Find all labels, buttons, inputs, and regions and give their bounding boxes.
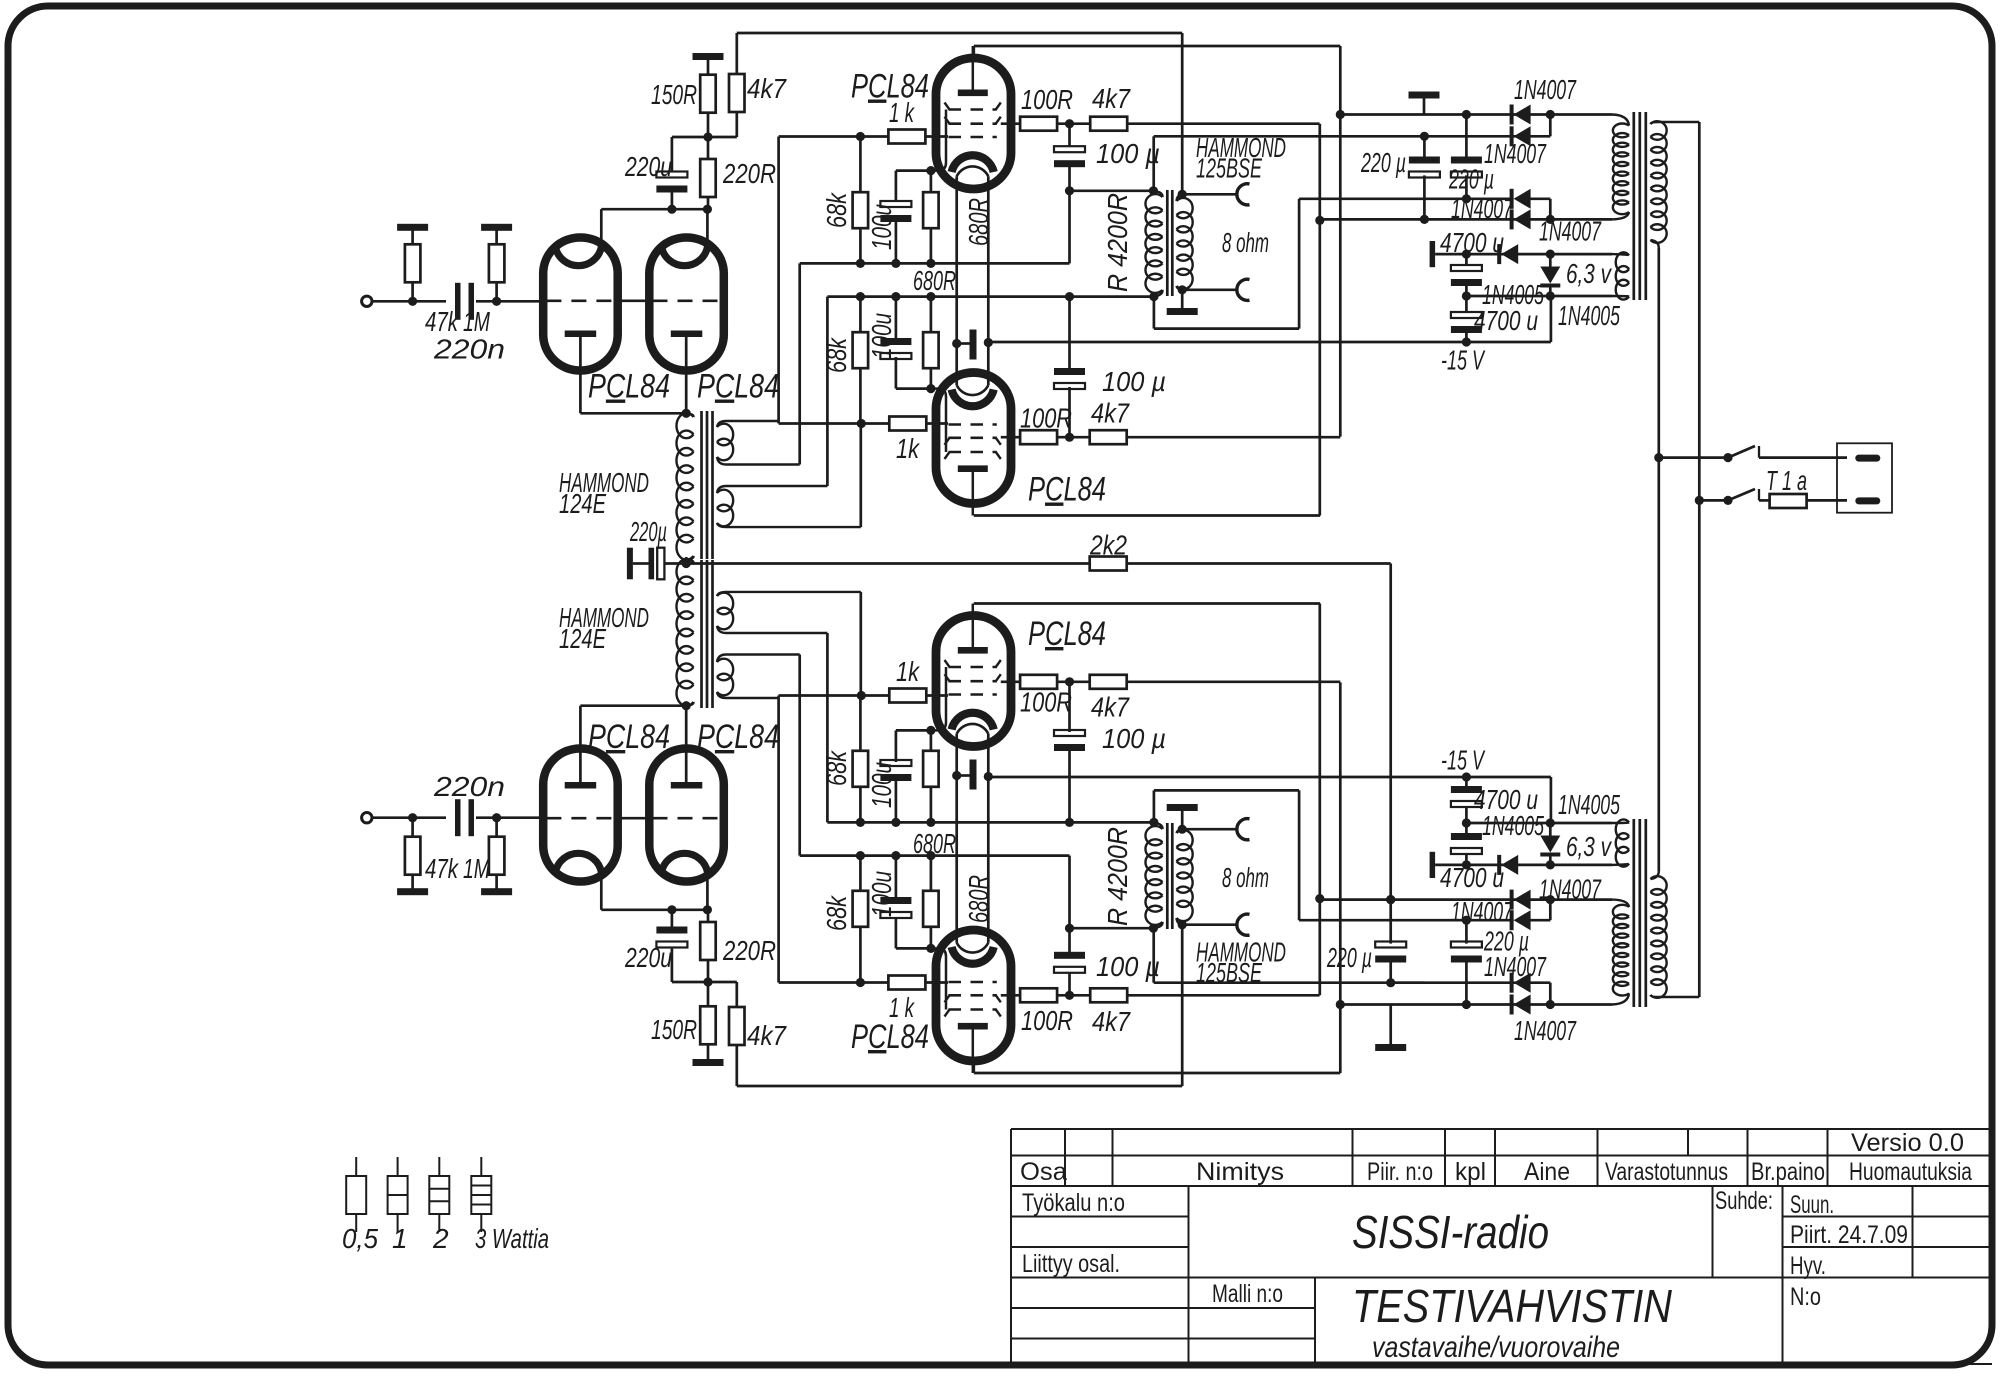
label PCL84 V4 (bottom) (1028, 615, 1106, 653)
switch 1 blade (1728, 446, 1755, 458)
wire 220u top stem (bottom) (671, 947, 674, 982)
capacitor 220µ-1 (bottom) (1375, 942, 1406, 963)
wire V3 plate rail vertical (top) (972, 46, 975, 59)
capacitor V3V4 cathode link plate (top) (970, 330, 977, 360)
svg-text:100R: 100R (1021, 84, 1073, 115)
junction rail A / 68k (top) (856, 132, 865, 141)
junction leg right cap (bottom) (984, 772, 993, 781)
tube V3 plate stem (bottom) (972, 1026, 975, 1073)
junction 100µ-1 / primary feed (bottom) (1065, 924, 1074, 933)
diode 1N4005 D5 (bottom) (1497, 855, 1518, 875)
diode 1N4007 D1 (top) (1510, 105, 1531, 125)
switch 1 pole (1723, 453, 1732, 462)
transformer 124E secondary lower winding (top) (717, 490, 733, 527)
ground of 1M (bottom) (481, 888, 512, 895)
svg-text:6,3 v: 6,3 v (1566, 258, 1612, 289)
tube V1 cathode bar (top) (565, 331, 597, 338)
label 4700 u 2 (top) (1474, 305, 1538, 336)
title text Suun. (1790, 1191, 1834, 1219)
wire P3 diode to vert (bottom) (1529, 919, 1550, 922)
wire input to 220n (top) (371, 300, 446, 303)
junction -15V 4700u (top) (1462, 337, 1471, 346)
transformer 124E sec lower top lead (bottom) (717, 626, 827, 633)
resistor 1k V3 (top) (888, 130, 925, 144)
svg-text:kpl: kpl (1455, 1158, 1486, 1186)
svg-text:220R: 220R (722, 935, 776, 966)
resistor 68k-2 (top) (853, 332, 869, 368)
label 100R V3 (top) (1021, 84, 1073, 115)
svg-text:-15 V: -15 V (1441, 345, 1485, 376)
wire 150R to node (top) (707, 113, 710, 137)
wire V4 screen lead (top) (1001, 436, 1021, 439)
wire V1 plate lead (top) (600, 209, 603, 252)
label 4k7 V3 (top) (1092, 83, 1131, 114)
wire plate bus (bottom) (601, 908, 707, 911)
wire bus1 (top) (1318, 124, 1321, 516)
tube V4 grid row 2 (top) (945, 438, 1001, 445)
wire secondary ground stem (bottom) (1181, 811, 1184, 829)
junction 220u/plate bus (top) (667, 205, 676, 214)
wire grid rail A2 (top) (779, 422, 890, 425)
svg-text:100R: 100R (1020, 403, 1072, 434)
ground of 125BSE secondary (bottom) (1167, 804, 1198, 811)
svg-text:R 4200R: R 4200R (1102, 827, 1133, 926)
wire 680R-2 top stem (top) (930, 297, 933, 333)
tube V4 plate bar (bottom) (958, 647, 988, 654)
label 8 ohm (bottom) (1222, 862, 1269, 893)
power transformer 6.3V top lead (bottom) (1612, 864, 1629, 865)
junction rail C 68k (top) (856, 292, 865, 301)
title text Osa (1020, 1158, 1067, 1186)
title text Versio 0.0 (1851, 1129, 1964, 1157)
junction bus2 P1 (bottom) (1336, 1000, 1345, 1009)
label 68k-2 (bottom) (821, 749, 852, 786)
label 100 µ V3 (top) (1096, 138, 1160, 169)
diode 1N4005 D6 (top) (1540, 267, 1560, 288)
wire V2 cathode stem (bottom) (685, 706, 688, 782)
svg-text:680R: 680R (913, 265, 956, 296)
speaker jack sleeve (top) (1237, 279, 1250, 300)
tube V3 plate bar (top) (958, 90, 988, 97)
title text Hyv. (1790, 1252, 1826, 1280)
tube V2 PCL84 triode envelope (bottom) (649, 749, 724, 882)
label 100u-1 (top) (866, 204, 897, 250)
wire plate feed to 125BSE (top) (1070, 189, 1154, 192)
capacitor 220n (top) (455, 283, 474, 320)
wire 100u-2 bottom stem (top) (895, 357, 898, 389)
label 220µ middle (629, 516, 667, 547)
svg-text:PCL84: PCL84 (1028, 615, 1106, 653)
legend label 3 Wattia (475, 1223, 549, 1254)
tube V3 g3 connector (top) (931, 110, 946, 171)
wire 4k7 V3 to bus1 (bottom) (1126, 994, 1320, 997)
wire D6 bottom stem (top) (1549, 284, 1552, 297)
title text Malli n:o (1212, 1280, 1283, 1308)
junction P1 D2 (top) (1546, 110, 1555, 119)
label 2k2 (1089, 530, 1127, 561)
wire NFB rail (top) (737, 32, 1182, 35)
junction screen node V4 (top) (1065, 433, 1074, 442)
junction Y2 4700u (bottom) (1462, 818, 1471, 827)
capacitor end bar 4700u (top) (1430, 241, 1436, 267)
wire 125BSE primary top lead (top) (1152, 136, 1155, 191)
wire D6 top stem (top) (1549, 254, 1552, 266)
title text Huomautuksia (1849, 1158, 1972, 1186)
title text Työkalu n:o (1022, 1189, 1125, 1217)
diode 1N4007 D3 (bottom) (1510, 910, 1531, 930)
title text vastavaihe/vuorovaihe (1372, 1331, 1620, 1364)
svg-text:N:o: N:o (1790, 1283, 1821, 1311)
transformer 124E primary winding (top) (676, 413, 693, 560)
label HAMMOND 124E line2 (top) (559, 488, 606, 519)
junction -15V 4700u (bottom) (1462, 772, 1471, 781)
resistor 68k-1 (top) (853, 192, 869, 228)
tube V1 plate arc (bottom) (555, 853, 601, 872)
transformer 124E sec upper top lead (top) (717, 421, 780, 427)
wire 220R top stem (bottom) (707, 960, 710, 982)
wire riser sec upper bottom (bottom) (798, 655, 801, 856)
resistor 1k V3 (bottom) (888, 976, 925, 990)
wire 68k-2 top stem (bottom) (859, 786, 862, 822)
transformer 124E core line 2 (top) (706, 411, 709, 559)
junction 220R/plate bus (top) (703, 205, 712, 214)
resistor 680R-2 (bottom) (923, 751, 939, 787)
svg-text:1N4007: 1N4007 (1539, 216, 1602, 247)
junction 125BSE secondary bottom (top) (1178, 285, 1187, 294)
diode 1N4007 D2 (bottom) (1510, 973, 1531, 993)
junction input/1M (bottom) (492, 813, 501, 822)
svg-text:220 µ: 220 µ (1483, 926, 1529, 957)
speaker jack sleeve (bottom) (1237, 819, 1250, 840)
svg-text:100 µ: 100 µ (1096, 951, 1160, 982)
tube V4 grid row 1 (top) (945, 452, 1001, 459)
svg-text:R 4200R: R 4200R (1102, 193, 1133, 292)
svg-text:4k7: 4k7 (747, 1020, 787, 1051)
svg-text:Nimitys: Nimitys (1196, 1158, 1284, 1186)
wire 47k to ground (bottom) (411, 875, 414, 890)
capacitor 100u-2 (top) (880, 338, 911, 359)
wire 220µ-1 bottom stem (bottom) (1389, 899, 1392, 944)
wire switch 1 to plug (1759, 456, 1847, 459)
resistor 680R-1 (bottom) (923, 891, 939, 927)
wire cathode node V3 (bottom) (896, 947, 934, 950)
transformer 125BSE secondary winding (top) (1177, 198, 1193, 289)
svg-text:4k7: 4k7 (1091, 692, 1130, 723)
transformer 124E core line 2 (bottom) (706, 560, 709, 708)
capacitor end bar 4700u (bottom) (1430, 852, 1436, 878)
tube V4 g3 connector (top) (931, 389, 946, 452)
svg-text:4k7: 4k7 (747, 73, 787, 104)
wire 1M to input line (bottom) (495, 818, 498, 838)
label 4700 u 1 (top) (1440, 227, 1504, 258)
wire Y1 (top) (1435, 253, 1612, 256)
tube V3 PCL84 pentode envelope (bottom) (936, 930, 1011, 1061)
wire secondary to jack sleeve (bottom) (1182, 828, 1238, 831)
label 100 µ V4 (top) (1102, 366, 1166, 397)
wire 4k7 V3 to bus1 (top) (1126, 122, 1320, 125)
capacitor 4700u-2 (top) (1451, 312, 1482, 333)
tube V4 cathode arc (bottom) (952, 713, 994, 730)
wire 100R-4k7 V3 (top) (1056, 122, 1091, 125)
tube V1 cathode bar (bottom) (565, 782, 597, 789)
label 100 µ V3 (bottom) (1096, 951, 1160, 982)
transformer 124E primary bottom stem (bottom) (685, 562, 688, 564)
speaker jack tip (top) (1237, 184, 1250, 205)
wire NFB drop (bottom) (1181, 925, 1184, 1086)
wire 100µ-1 top stem (top) (1068, 124, 1071, 148)
label 220R (bottom) (722, 935, 776, 966)
tube V4 grid row 3 (top) (949, 423, 997, 426)
wire P3 diode to vert (top) (1529, 197, 1550, 200)
wire rail C (top) (827, 295, 1154, 298)
svg-text:6,3 v: 6,3 v (1566, 831, 1612, 862)
tube V4 beam arc (top) (957, 385, 989, 395)
svg-text:1N4007: 1N4007 (1539, 873, 1602, 904)
label R 4200R (top) (1102, 193, 1133, 292)
wire rail P1 (top) (1340, 113, 1612, 116)
label 1N4007 D3 (bottom) (1451, 896, 1514, 927)
wire 4700u-2 bottom stem (top) (1465, 328, 1468, 342)
svg-text:125BSE: 125BSE (1196, 957, 1262, 988)
svg-text:-15 V: -15 V (1441, 745, 1485, 776)
junction 680R-1 top (top) (926, 166, 935, 175)
resistor 100R V4 (bottom) (1020, 675, 1057, 689)
wire 100µ-1 bottom stem (bottom) (1068, 928, 1071, 954)
power transformer core 1 (top) (1632, 112, 1635, 300)
transformer 124E primary top lead (bottom) (686, 702, 693, 706)
svg-text:220 µ: 220 µ (1448, 164, 1494, 195)
junction rail C 100µ riser (bottom) (1065, 818, 1074, 827)
ground of PSU (bottom) (1375, 1044, 1406, 1051)
wire 4k7 to node (bottom) (735, 982, 738, 1007)
wire 220n to V1 grid (bottom) (476, 816, 545, 819)
tube V2 plate arc (top) (662, 247, 708, 266)
svg-text:Huomautuksia: Huomautuksia (1849, 1158, 1972, 1186)
wire cathode node V4 (top) (896, 387, 934, 390)
capacitor 100µ-1 (top) (1054, 146, 1085, 167)
wire 125BSE primary top lead (bottom) (1152, 928, 1155, 983)
junction bus2 P1 (top) (1336, 110, 1345, 119)
junction 150R/220R (top) (703, 132, 712, 141)
diode 1N4007 D1 (bottom) (1510, 995, 1531, 1015)
wire 100R-4k7 V4 (bottom) (1056, 680, 1090, 683)
capacitor 100u-1 (bottom) (880, 897, 911, 918)
wire PSU ground stem (top) (1423, 97, 1426, 115)
wire 4700u-1 top stem (bottom) (1465, 852, 1468, 865)
wire V3 plate rail vertical (bottom) (972, 1061, 975, 1074)
wire 4k7 to node (top) (735, 112, 738, 137)
wire 220R bottom stem (bottom) (707, 910, 710, 922)
resistor 150R (top) (700, 75, 716, 113)
wire 100u-2 top stem (bottom) (895, 778, 898, 822)
wire 125BSE return to PSU (top) (1299, 197, 1514, 200)
svg-text:100u: 100u (866, 762, 897, 808)
wire switch 2 to fuse (1759, 499, 1770, 502)
wire V1 cathode stem (bottom) (579, 706, 582, 782)
wire 100u-2 top stem (top) (895, 297, 898, 341)
junction P1 220µ-2 (bottom) (1462, 1000, 1471, 1009)
wire cathode node V3 (top) (896, 169, 934, 172)
label 220 µ PSU-2 (bottom) (1483, 926, 1529, 957)
label 68k-1 (top) (821, 191, 852, 228)
svg-text:100u: 100u (866, 871, 897, 917)
wire cathode leg left (bottom) (955, 734, 958, 943)
resistor 680R-1 (top) (923, 192, 939, 228)
label PCL84 V2 (top) (697, 368, 779, 406)
wire -15V to Y2 (top) (1550, 296, 1553, 342)
label -15 V (bottom) (1441, 745, 1485, 776)
tube V3 plate bar (bottom) (958, 1023, 988, 1030)
wire -15V rail (bottom) (989, 776, 1551, 779)
wire 68k-1 top stem (bottom) (859, 926, 862, 983)
resistor 47k (top) (405, 244, 421, 282)
transformer 124E sec lower bottom lead (bottom) (717, 592, 861, 596)
capacitor 100u-1 (top) (880, 201, 911, 222)
svg-text:0,5: 0,5 (342, 1223, 378, 1254)
wire 125BSE return to PSU (bottom) (1299, 919, 1514, 922)
label 680R rail C (top) (913, 265, 956, 296)
wire grid V1-V2 (top) (617, 299, 651, 302)
wire V4 plate rail (bottom) (974, 602, 1320, 605)
label HAMMOND 125BSE line1 (top) (1196, 132, 1286, 163)
junction input/47k (top) (408, 297, 417, 306)
svg-text:8 ohm: 8 ohm (1222, 862, 1269, 893)
wire 100µ-2 bottom stem (bottom) (1068, 682, 1071, 732)
wire V2 plate lead (top) (706, 209, 709, 252)
title text SISSI-radio (1352, 1206, 1549, 1258)
label 1N4005 D6 (top) (1558, 300, 1620, 331)
tube V1 plate arc (top) (555, 247, 601, 266)
label 680R rail C (bottom) (913, 828, 956, 859)
svg-text:47k: 47k (425, 853, 459, 884)
svg-text:PCL84: PCL84 (1028, 471, 1106, 509)
junction P4 vert (top) (1546, 215, 1555, 224)
wire 150R to node (bottom) (707, 982, 710, 1006)
svg-text:220 µ: 220 µ (1326, 942, 1372, 973)
wire -15V rail (top) (989, 341, 1551, 344)
junction P1 220µ-2 (top) (1462, 110, 1471, 119)
wire rail B riser (bottom) (1068, 856, 1071, 929)
wire 220u top stem (top) (671, 137, 674, 172)
svg-text:2k2: 2k2 (1089, 530, 1127, 561)
diode 1N4005 D5 (top) (1497, 244, 1518, 264)
svg-text:124E: 124E (559, 488, 606, 519)
wire cathode leg right (top) (987, 176, 990, 385)
transformer 124E sec upper bottom lead (bottom) (717, 655, 800, 663)
wire 680R-2 top stem (bottom) (930, 786, 933, 822)
wire V3 plate rail (bottom) (974, 1072, 1341, 1075)
switch 2 blade (1728, 489, 1755, 500)
junction screen node V4 (bottom) (1065, 677, 1074, 686)
tube V2 cathode bar (top) (671, 331, 703, 338)
tube V4 PCL84 pentode envelope (bottom) (936, 616, 1011, 747)
wire V4 screen lead (bottom) (1001, 680, 1021, 683)
title text kpl (1455, 1158, 1486, 1186)
transformer 125BSE primary lead curve top (top) (1153, 191, 1162, 197)
tube V1 PCL84 triode envelope (top) (543, 238, 618, 371)
junction rail C 68k (bottom) (856, 818, 865, 827)
label 1N4007 D2 (bottom) (1484, 951, 1547, 982)
wire 1k to V4 grid (bottom) (926, 694, 948, 697)
wire 47k to input line (top) (411, 282, 414, 302)
resistor 100R V3 (bottom) (1020, 988, 1057, 1002)
wire riser sec lower bottom (bottom) (859, 592, 862, 696)
capacitor 4700u-2 (bottom) (1451, 786, 1482, 807)
label 1N4007 D4 (bottom) (1539, 873, 1602, 904)
wire 100R-4k7 V3 (bottom) (1056, 994, 1091, 997)
tube V3 beam arc (top) (957, 166, 989, 176)
tube V3 g3 connector (bottom) (931, 948, 946, 1009)
switch 2 throw contact (1758, 489, 1760, 500)
ground of 125BSE secondary (top) (1167, 308, 1198, 315)
wire 4700u-2 top stem (top) (1465, 296, 1468, 316)
wire secondary ground stem (top) (1181, 290, 1184, 308)
wire 100µ-1 bottom stem (top) (1068, 165, 1071, 191)
wire rail B (bottom) (800, 854, 1070, 857)
title text Suhde: (1715, 1187, 1773, 1215)
power transformer HV winding (bottom) (1613, 905, 1629, 996)
svg-text:220R: 220R (722, 158, 776, 189)
wire V3 screen lead (bottom) (1001, 994, 1021, 997)
wire mains vertical 2 (1698, 122, 1701, 997)
label PCL84 V1 (bottom) (588, 718, 670, 756)
junction middle bus P4-bottom (1386, 895, 1395, 904)
junction mains switch 1 (1654, 453, 1663, 462)
svg-text:220u: 220u (624, 151, 672, 182)
input terminal (bottom) (362, 813, 372, 823)
wire 68k-1 top stem (top) (859, 137, 862, 194)
resistor 47k (bottom) (405, 837, 421, 875)
wire 1k to V3 grid (bottom) (925, 981, 948, 984)
svg-text:68k: 68k (821, 336, 852, 373)
wire grid rail A2 (bottom) (779, 694, 890, 697)
junction bus1 P4 (bottom) (1315, 894, 1324, 903)
transformer 125BSE core 1 (bottom) (1166, 823, 1169, 929)
tube V4 grid row 3 (bottom) (949, 693, 997, 696)
wire grid V1-V2 (bottom) (617, 817, 651, 820)
wire 68k-2 bottom stem (top) (859, 368, 862, 423)
wire 4k7 to NFB rail (top) (735, 33, 738, 74)
label PCL84 V4 (top) (1028, 471, 1106, 509)
wire 220n to V1 grid (top) (476, 300, 545, 303)
junction rail C 680R (top) (926, 292, 935, 301)
wire D6 top stem (bottom) (1549, 853, 1552, 865)
transformer 125BSE core 2 (bottom) (1171, 823, 1174, 929)
label 100R V4 (top) (1020, 403, 1072, 434)
wire rail C (bottom) (827, 821, 1154, 824)
title text Aine (1524, 1158, 1570, 1186)
switch 1 throw contact (1758, 446, 1760, 458)
mains plug pin 2 (1855, 497, 1880, 504)
transformer 124E core line 3 (bottom) (711, 560, 714, 708)
switch 2 pole (1723, 496, 1732, 505)
wire 220µ-2 top stem (top) (1465, 115, 1468, 160)
wire P2 drop (bottom) (1549, 983, 1552, 1005)
wire cap lead left (top) (957, 342, 970, 345)
power transformer core 2 (bottom) (1638, 819, 1641, 1007)
power transformer mains top lead (bottom) (1651, 995, 1700, 997)
tube V3 cathode arc (bottom) (952, 947, 994, 964)
wire node 150R-220u (top) (672, 136, 737, 139)
svg-text:4700 u: 4700 u (1474, 784, 1538, 815)
tube V3 grid row 2 (top) (945, 117, 1001, 124)
label 100u-2 (bottom) (866, 762, 897, 808)
wire secondary to jack tip (bottom) (1182, 923, 1238, 926)
svg-text:1N4005: 1N4005 (1558, 789, 1620, 820)
wire rail P1 (bottom) (1340, 1003, 1612, 1006)
wire 4k7 to NFB rail (bottom) (735, 1045, 738, 1086)
resistor 68k-2 (bottom) (853, 751, 869, 787)
